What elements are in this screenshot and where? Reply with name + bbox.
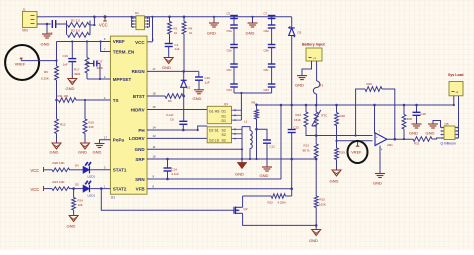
- svg-text:D2: D2: [187, 86, 191, 90]
- svg-text:STAT1: STAT1: [113, 168, 127, 173]
- svg-text:C5d: C5d: [227, 88, 233, 92]
- svg-text:GND: GND: [66, 86, 75, 91]
- resistor R9 5.25K: [41, 60, 58, 81]
- wire R9 to TS node: [56, 80, 58, 100]
- junction bus/F1: [315, 104, 318, 107]
- wire TERM_EN tie: [100, 40, 111, 51]
- ground GND (rail left): [207, 16, 219, 36]
- svg-text:4.22M: 4.22M: [278, 201, 287, 205]
- svg-text:GND: GND: [330, 179, 339, 184]
- ground GND (op-amp): [373, 174, 385, 186]
- ground GND (battery): [295, 76, 307, 88]
- wire LED1 to STAT1: [90, 169, 110, 171]
- svg-text:R12: R12: [60, 123, 66, 127]
- wire battery bus: [257, 104, 455, 106]
- wire R4 to REGN: [183, 34, 185, 71]
- svg-text:Q1: Q1: [224, 102, 228, 106]
- resistor R19 34K: [83, 99, 94, 143]
- svg-text:GND: GND: [41, 41, 50, 46]
- svg-text:17: 17: [153, 67, 157, 71]
- svg-text:D3: D3: [298, 31, 302, 35]
- diode D2: [181, 71, 191, 96]
- svg-text:14: 14: [153, 126, 157, 130]
- transistor Q2 (LS): [207, 127, 231, 143]
- ground GND (C1): [162, 58, 173, 71]
- wire LODRV: [147, 137, 207, 139]
- svg-text:U1: U1: [111, 196, 115, 200]
- ground GND (Q5): [426, 121, 441, 136]
- ground GND (C18): [409, 124, 422, 136]
- svg-text:C8d: C8d: [264, 88, 270, 92]
- resistor R1 3.0: [68, 19, 90, 28]
- ground GND (R15): [309, 230, 321, 244]
- wire minus input: [335, 140, 372, 142]
- inductor L1: [242, 120, 252, 161]
- wire VCC to R21: [46, 188, 53, 190]
- wire LED2 to STAT2: [90, 188, 110, 190]
- svg-text:C10: C10: [205, 76, 211, 80]
- junction R4 top: [183, 15, 186, 18]
- svg-text:GND: GND: [373, 181, 382, 186]
- svg-text:R19: R19: [89, 121, 95, 125]
- svg-text:R1 3.0: R1 3.0: [71, 19, 80, 23]
- svg-text:1uF: 1uF: [175, 47, 180, 51]
- svg-text:TERM_EN: TERM_EN: [113, 49, 135, 54]
- capacitor C16 1uF: [63, 40, 77, 78]
- svg-text:11: 11: [153, 145, 156, 149]
- svg-text:AR1: AR1: [387, 143, 393, 147]
- wire VIN pin2: [37, 23, 51, 25]
- wire REGN: [147, 70, 199, 72]
- svg-text:R11 100: R11 100: [58, 94, 69, 98]
- transistor Q5: [441, 122, 459, 146]
- junction D2 top: [182, 70, 185, 73]
- svg-text:C15: C15: [294, 125, 300, 129]
- svg-text:C12: C12: [270, 145, 276, 149]
- annotation circle (left VREF): [5, 45, 39, 80]
- svg-text:15: 15: [153, 105, 157, 109]
- svg-text:C5: C5: [227, 11, 231, 15]
- svg-text:LED1: LED1: [88, 193, 96, 197]
- svg-text:R28: R28: [340, 114, 346, 118]
- ground GND (C12): [260, 167, 273, 178]
- ground GND (R24): [67, 216, 79, 229]
- svg-text:VCC: VCC: [99, 22, 108, 27]
- svg-text:17: 17: [104, 136, 108, 140]
- svg-text:34K: 34K: [89, 125, 94, 129]
- capacitor C12: [263, 140, 275, 167]
- svg-text:GND: GND: [409, 131, 418, 136]
- svg-text:154K: 154K: [294, 118, 301, 122]
- wire VREF label to R9 node: [21, 60, 56, 62]
- junction R24: [72, 187, 75, 190]
- svg-text:VCC: VCC: [31, 168, 40, 173]
- wire Q5 drain up: [458, 96, 460, 138]
- capacitor C6 0.1uF: [166, 96, 187, 130]
- svg-text:STAT2: STAT2: [113, 186, 127, 191]
- svg-text:R6: R6: [252, 101, 256, 105]
- svg-text:C5b: C5b: [227, 49, 233, 53]
- svg-text:D5: D5: [75, 182, 79, 186]
- svg-text:J1: J1: [23, 8, 27, 12]
- svg-text:C7: C7: [264, 11, 268, 15]
- svg-text:13: 13: [153, 134, 157, 138]
- ground GND (C10): [193, 90, 205, 101]
- svg-text:18: 18: [153, 92, 157, 96]
- resistor R26 feedback: [355, 82, 395, 139]
- capacitor column C7/C8 stack: [264, 11, 276, 93]
- resistor R5: [165, 94, 183, 103]
- svg-text:VREF: VREF: [351, 150, 362, 155]
- svg-text:Sys Load: Sys Load: [448, 73, 464, 77]
- wire R13 to R15: [315, 158, 317, 196]
- svg-text:+: +: [376, 135, 378, 139]
- wire RTC node: [315, 125, 318, 144]
- resistor R17 490k: [74, 40, 89, 79]
- diode D3 TVS: [288, 26, 301, 37]
- top rail: [45, 16, 292, 18]
- svg-text:R9: R9: [44, 70, 48, 74]
- op-amp AR1: [375, 131, 393, 152]
- svg-text:GND: GND: [50, 150, 59, 155]
- wire Q2 source node: [241, 127, 243, 163]
- svg-text:-: -: [376, 142, 377, 146]
- wire Q1 drain node: [240, 92, 242, 120]
- svg-text:162K: 162K: [319, 202, 326, 206]
- svg-text:R13: R13: [304, 144, 310, 148]
- svg-text:GND: GND: [78, 150, 87, 155]
- junction R3 top: [168, 15, 171, 18]
- wire caps to Q1: [234, 92, 272, 94]
- svg-text:GND: GND: [246, 31, 255, 36]
- svg-text:RTC: RTC: [321, 114, 328, 118]
- capacitor C1 1uF: [165, 43, 180, 51]
- capacitor column C5 stack: [227, 11, 238, 93]
- wire PH jog to Q2: [197, 126, 208, 131]
- node R1R2 right: [89, 21, 90, 35]
- resistor R6: [252, 101, 259, 120]
- svg-text:VREF: VREF: [113, 39, 125, 44]
- svg-text:L1: L1: [244, 120, 248, 124]
- svg-text:Q Infineon: Q Infineon: [441, 142, 456, 146]
- power VCC (STAT2): [31, 186, 46, 192]
- svg-text:D4: D4: [75, 164, 79, 168]
- svg-text:R17: R17: [74, 68, 80, 72]
- svg-text:R31: R31: [414, 142, 420, 146]
- wire HIDRV: [147, 109, 207, 111]
- svg-text:GND: GND: [93, 150, 102, 155]
- svg-text:1uF: 1uF: [63, 62, 68, 66]
- svg-text:LED1: LED1: [88, 175, 96, 179]
- svg-text:490k: 490k: [74, 72, 81, 76]
- junction SRP/R13: [315, 158, 318, 161]
- ground GND (R19): [78, 143, 90, 155]
- svg-text:S2: S2: [222, 139, 226, 143]
- resistor R30: [402, 104, 412, 140]
- svg-text:D2 S1: D2 S1: [209, 128, 219, 132]
- capacitor C10 1uF: [195, 71, 210, 89]
- resistor R23 154K: [294, 104, 316, 136]
- svg-text:R23: R23: [296, 113, 302, 117]
- svg-text:GND: GND: [162, 65, 171, 70]
- svg-text:5.25K: 5.25K: [41, 77, 49, 81]
- resistor R21 10K: [52, 180, 70, 190]
- svg-text:C5a: C5a: [227, 29, 233, 33]
- wire C4 to R1/R2: [56, 23, 67, 25]
- svg-text:R5: R5: [168, 99, 172, 103]
- svg-text:S2: S2: [222, 128, 226, 132]
- resistor R13 183k: [303, 144, 319, 159]
- svg-text:D1: D1: [222, 115, 227, 119]
- svg-text:TS: TS: [113, 98, 119, 103]
- svg-text:R20 10K: R20 10K: [53, 161, 66, 165]
- svg-text:10K: 10K: [78, 203, 83, 207]
- LED LED2 (D5): [75, 181, 96, 198]
- svg-text:VFB: VFB: [136, 187, 146, 192]
- svg-text:SRN: SRN: [135, 177, 145, 182]
- ground GND (pin17): [93, 144, 105, 155]
- svg-text:0.1uF: 0.1uF: [166, 113, 174, 117]
- wire D3 to bus: [290, 36, 293, 107]
- svg-text:10: 10: [189, 31, 193, 35]
- svg-text:VCC: VCC: [135, 40, 145, 45]
- svg-text:Q5: Q5: [445, 122, 449, 126]
- svg-text:C8a: C8a: [264, 29, 270, 33]
- wire SRP: [147, 158, 316, 160]
- wire C1 to GND: [168, 47, 170, 58]
- wire R20 to LED1: [69, 169, 83, 171]
- svg-text:0.1uF: 0.1uF: [172, 172, 180, 176]
- svg-text:VIN: VIN: [22, 29, 28, 33]
- power VCC (top): [99, 15, 108, 27]
- wire TS pin 4: [76, 99, 110, 101]
- wire VCC drop: [93, 15, 96, 26]
- node R1R2 left: [66, 21, 68, 35]
- svg-text:PoPa: PoPa: [113, 138, 125, 143]
- wire op-amp output: [387, 138, 413, 141]
- junction TS/R12: [55, 99, 58, 102]
- power VCC (STAT1): [31, 167, 46, 173]
- svg-text:Q2: Q2: [244, 207, 248, 211]
- svg-text:GND: GND: [309, 238, 318, 243]
- capacitor C4: [49, 20, 56, 36]
- net label VREF (right): [351, 140, 362, 155]
- svg-text:D1: D1: [222, 119, 227, 123]
- svg-text:Battery Input: Battery Input: [302, 43, 326, 47]
- connector J1 (VIN): [22, 8, 37, 33]
- svg-text:R26: R26: [367, 82, 373, 86]
- wire VIN pin1 to top rail: [37, 16, 45, 18]
- wire D1 right to VCC pin: [147, 16, 154, 42]
- svg-text:R21 10K: R21 10K: [53, 180, 66, 184]
- op-amp U1 main charger IC: [110, 36, 147, 199]
- svg-text:C6: C6: [170, 118, 174, 122]
- svg-text:PH: PH: [138, 128, 144, 133]
- svg-text:MPPSET: MPPSET: [113, 77, 132, 82]
- LED LED1 (D4): [75, 162, 96, 179]
- svg-text:32pF: 32pF: [97, 66, 104, 70]
- wire Q3 drain: [241, 196, 243, 207]
- resistor R22 4.22M: [243, 194, 292, 205]
- wire pin17 to GND: [100, 140, 111, 144]
- svg-text:D1: D1: [135, 11, 139, 15]
- junction BTST node: [182, 95, 185, 98]
- svg-text:R2 3.0: R2 3.0: [71, 29, 80, 33]
- U1 pin numbers: [104, 37, 156, 189]
- svg-text:R30: R30: [407, 117, 413, 121]
- ground GND (R12): [50, 143, 62, 155]
- ground GND (rail right): [246, 16, 258, 36]
- wire VFB: [147, 188, 292, 190]
- annotation circle (right VREF): [348, 141, 368, 163]
- svg-text:GND: GND: [260, 173, 269, 178]
- wire C12 tee: [257, 129, 268, 140]
- svg-text:C18: C18: [421, 112, 427, 116]
- svg-text:LODRV: LODRV: [129, 136, 145, 141]
- svg-text:S2: S2: [222, 133, 226, 137]
- capacitor C14 0.1uF: [164, 158, 180, 181]
- capacitor C18: [413, 104, 427, 124]
- svg-text:GND: GND: [426, 131, 435, 136]
- svg-text:GND: GND: [295, 83, 304, 88]
- wire op-amp gnd: [379, 146, 381, 174]
- svg-text:R15: R15: [320, 198, 326, 202]
- svg-text:R29: R29: [340, 151, 346, 155]
- svg-text:HIDRV: HIDRV: [131, 107, 145, 112]
- wire VCC to R20: [46, 169, 53, 171]
- wire R6 down: [255, 119, 258, 160]
- svg-text:R24: R24: [78, 199, 84, 203]
- resistor R31: [413, 137, 441, 146]
- svg-text:GND: GND: [67, 224, 76, 229]
- wire Q3 source: [241, 213, 317, 225]
- diode network D1: [135, 11, 145, 30]
- svg-text:C14: C14: [172, 168, 178, 172]
- svg-text:GND: GND: [235, 172, 244, 177]
- wire R21 to LED2: [69, 188, 83, 190]
- wire to VCC bus: [90, 24, 94, 26]
- wire battery minus: [302, 61, 312, 76]
- svg-text:SRP: SRP: [135, 157, 144, 162]
- resistor R11 100: [58, 94, 77, 102]
- svg-text:GND: GND: [135, 147, 146, 152]
- resistor R28: [335, 104, 346, 141]
- svg-text:C4: C4: [49, 32, 53, 36]
- wire STAT2 to Q3 gate: [100, 187, 234, 210]
- svg-text:C8c: C8c: [264, 68, 270, 72]
- wire to GND: [46, 24, 48, 34]
- wire SysLoad left: [453, 96, 455, 106]
- wire rail to D1 left: [130, 16, 132, 18]
- transistor Q1 (HS): [207, 102, 231, 124]
- wire SRN: [147, 178, 281, 180]
- Q1 right pins: [232, 109, 242, 121]
- resistor R12: [55, 100, 66, 143]
- wire PH: [147, 129, 198, 132]
- ground GND (Q2): [235, 163, 247, 177]
- D1 right pins: [145, 17, 150, 28]
- wire BTST: [147, 95, 165, 97]
- svg-text:G2 LS: G2 LS: [209, 139, 220, 143]
- svg-text:REGN: REGN: [132, 69, 145, 74]
- resistor R15 162K: [314, 196, 326, 230]
- wire op-amp supply: [373, 104, 376, 134]
- wire R3 to C1: [169, 34, 171, 44]
- wire plus input: [306, 134, 373, 136]
- wire SRN up: [280, 104, 283, 179]
- connector Battery Input: [302, 43, 326, 62]
- svg-text:GND: GND: [207, 31, 216, 36]
- thermistor RTC: [312, 105, 328, 127]
- resistor R24 10K: [72, 189, 83, 216]
- fuse F1: [313, 81, 323, 94]
- resistor R4 10: [182, 17, 192, 35]
- wire F1 to bus: [316, 94, 318, 105]
- D1 left pins: [132, 17, 137, 28]
- svg-text:VCC: VCC: [31, 187, 40, 192]
- svg-text:1uF: 1uF: [205, 80, 210, 84]
- capacitor C15: [288, 105, 299, 196]
- wire MPPSET pin 2: [87, 78, 110, 80]
- svg-text:BTST: BTST: [133, 94, 145, 99]
- svg-text:F1: F1: [320, 84, 324, 88]
- svg-text:D1: D1: [222, 109, 227, 113]
- ground GND (C16): [66, 79, 77, 92]
- transistor Q3: [234, 207, 248, 215]
- ground GND (R29): [330, 170, 342, 184]
- svg-text:VREF: VREF: [15, 61, 26, 66]
- svg-text:C17: C17: [97, 59, 103, 63]
- resistor R20 10K: [52, 161, 70, 171]
- svg-text:R22: R22: [268, 201, 274, 205]
- svg-text:C16: C16: [63, 54, 69, 58]
- wire battery plus: [316, 61, 318, 81]
- Q2 right pins: [232, 128, 243, 139]
- svg-text:C5c: C5c: [227, 68, 233, 72]
- svg-text:G1 HS: G1 HS: [209, 109, 220, 113]
- wire VREF pin 6: [57, 41, 111, 43]
- capacitor C17 32pF: [86, 59, 103, 79]
- svg-text:GND: GND: [193, 96, 202, 101]
- connector Sys Load: [448, 73, 464, 96]
- junction: [46, 23, 49, 26]
- battery column: [291, 17, 293, 28]
- net label VREF (left): [15, 58, 26, 67]
- ground GND (input): [41, 34, 53, 46]
- svg-text:10: 10: [153, 155, 157, 159]
- resistor R2 3.0: [68, 29, 90, 38]
- wire GND pin: [147, 148, 242, 150]
- svg-text:C8b: C8b: [264, 49, 270, 53]
- svg-text:88.7k: 88.7k: [303, 149, 311, 153]
- wire VREF vertical: [56, 42, 58, 61]
- resistor R29: [335, 141, 346, 170]
- svg-text:10: 10: [174, 31, 178, 35]
- resistor R3 10: [168, 17, 178, 35]
